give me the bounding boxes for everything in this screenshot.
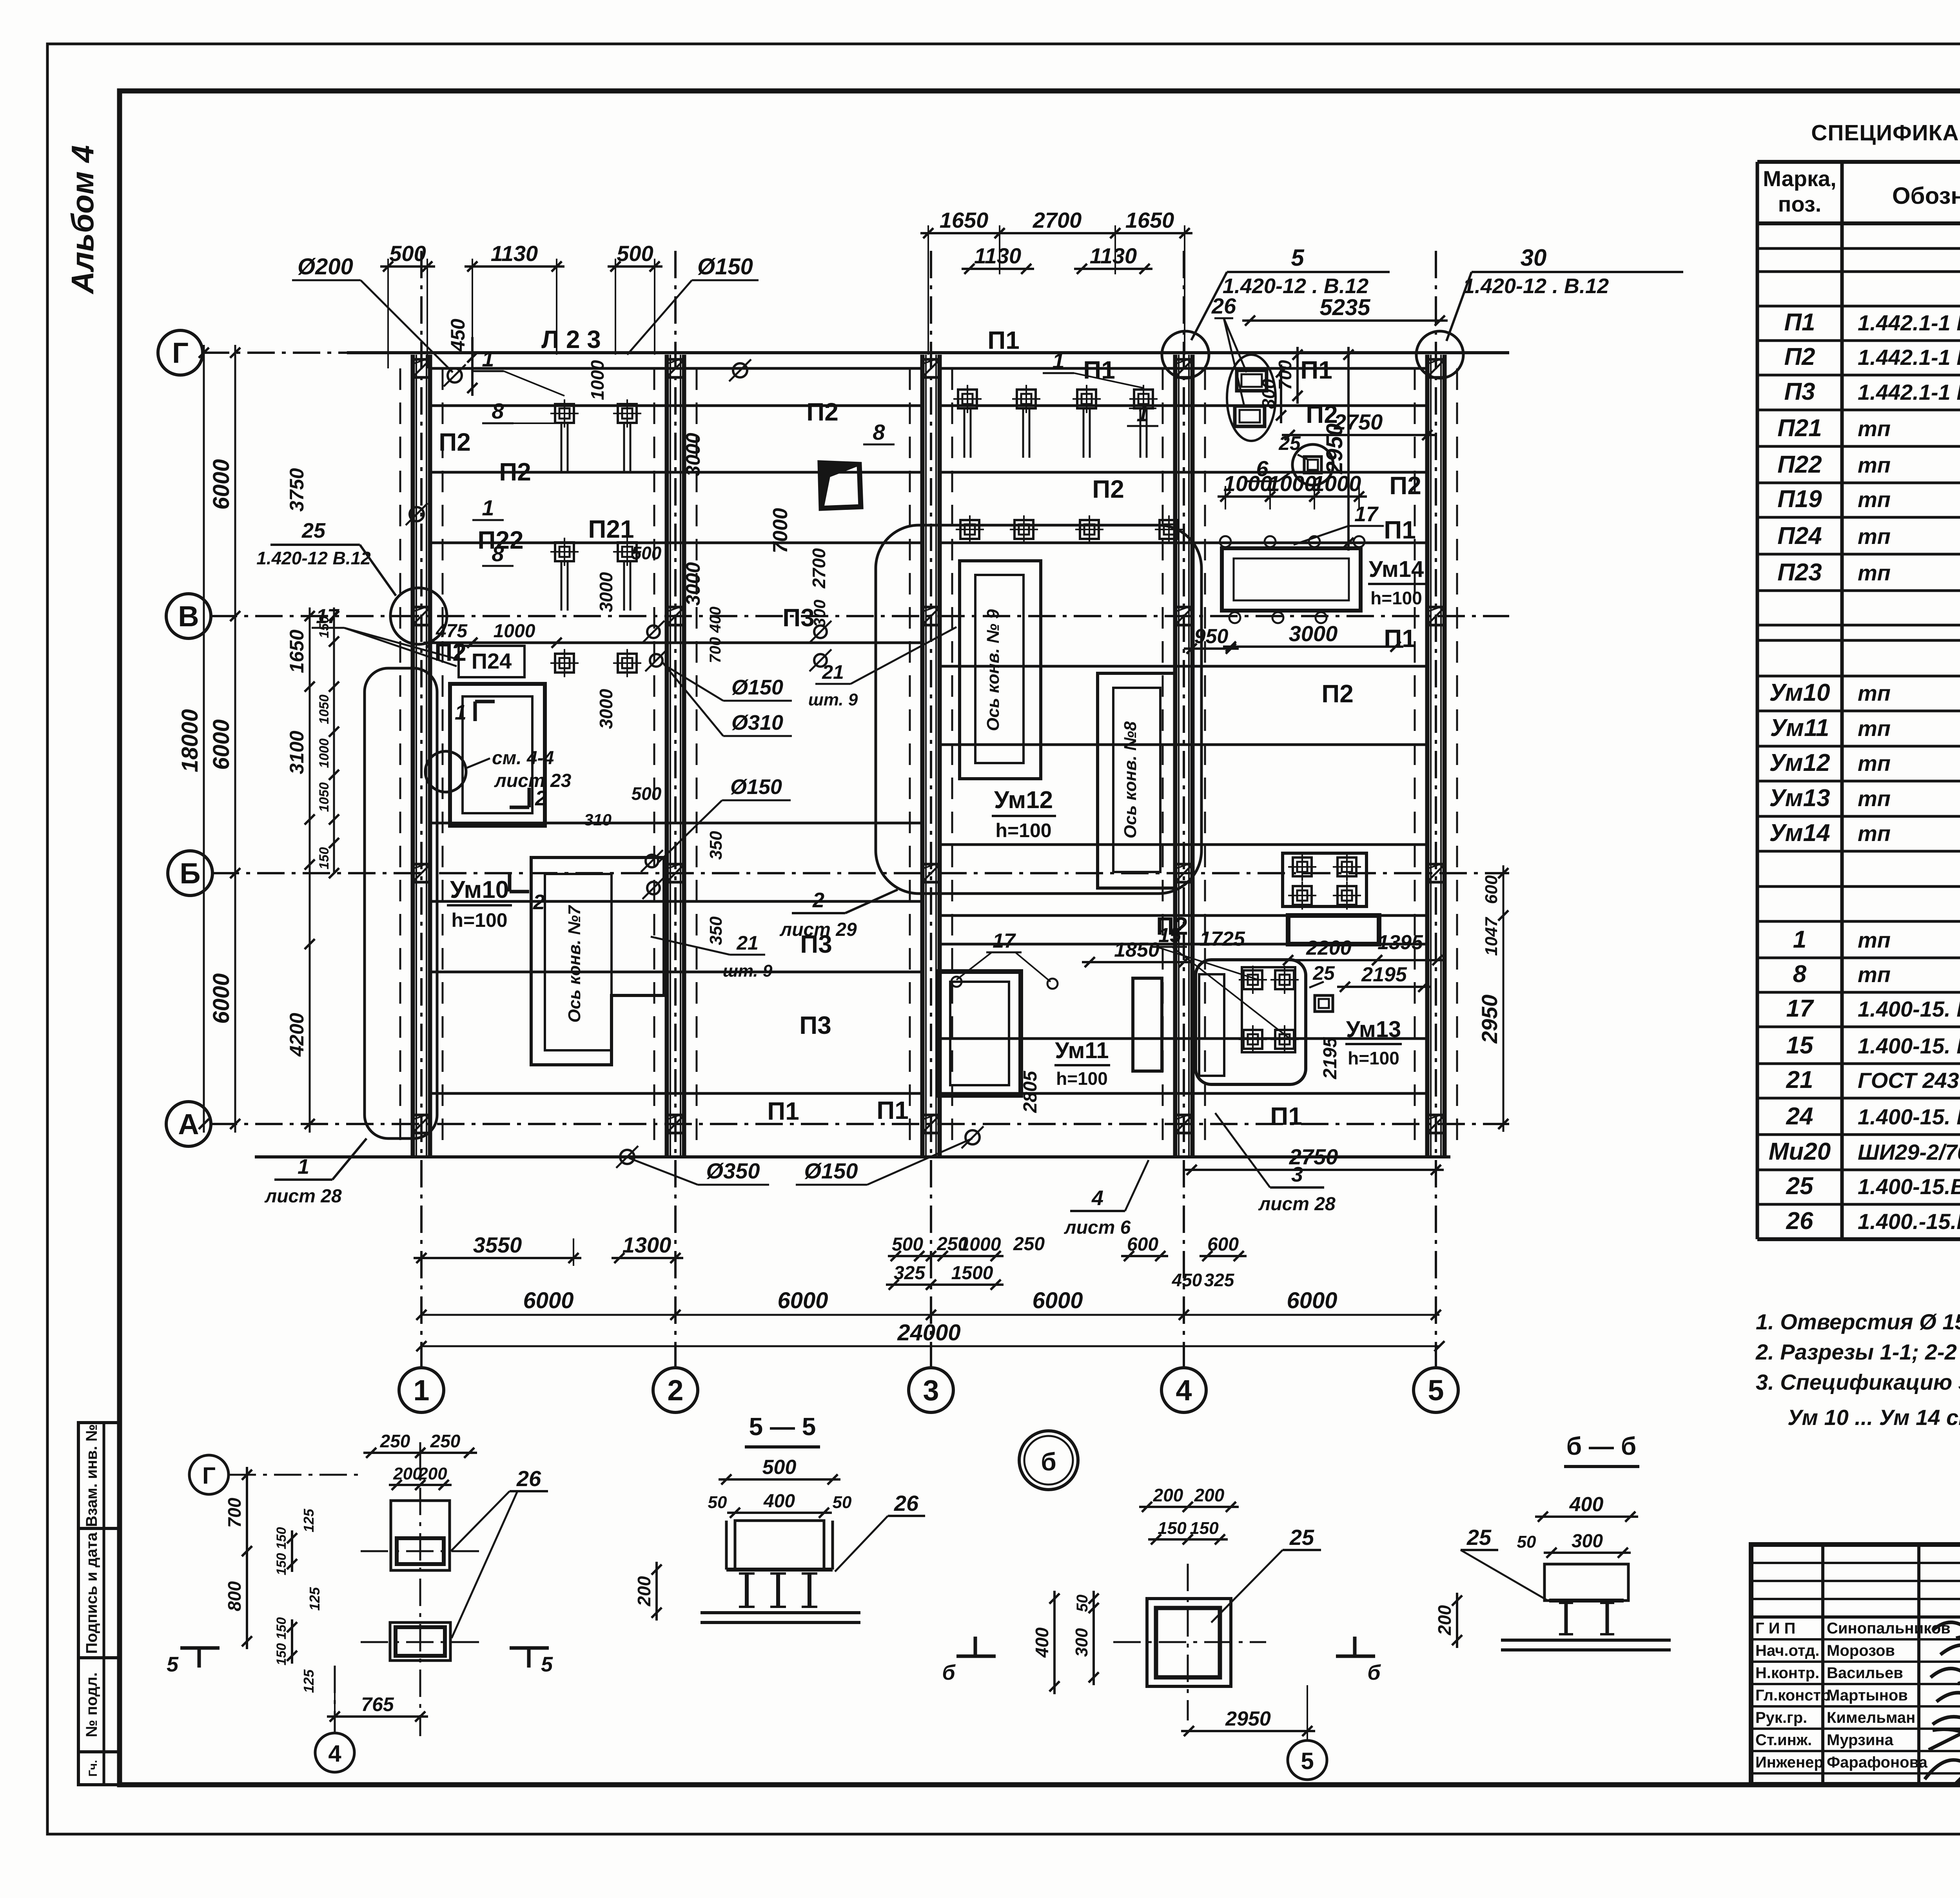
svg-text:17: 17 <box>1354 502 1379 526</box>
opening Ось конв 8 <box>1098 673 1175 888</box>
svg-text:21: 21 <box>1786 1066 1813 1093</box>
svg-text:700: 700 <box>224 1497 245 1528</box>
svg-text:250: 250 <box>430 1431 461 1451</box>
svg-text:400: 400 <box>1569 1493 1604 1516</box>
axis bubbles 1-5 <box>399 1368 444 1412</box>
svg-text:1: 1 <box>1052 348 1064 373</box>
svg-text:В: В <box>178 600 199 633</box>
bottom dim chain row1 <box>573 1238 574 1266</box>
svg-text:6000: 6000 <box>777 1288 828 1313</box>
section 2 below <box>508 872 512 892</box>
axis bubble А <box>166 1102 211 1146</box>
svg-text:б: б <box>942 1661 956 1684</box>
svg-text:25: 25 <box>301 519 326 542</box>
title block <box>1751 1545 1960 1784</box>
svg-text:5: 5 <box>1428 1374 1444 1407</box>
svg-text:П1: П1 <box>1083 356 1115 384</box>
svg-text:1.442.1-1 Вып.1: 1.442.1-1 Вып.1 <box>1858 380 1960 404</box>
vertical axis lines 1-5 <box>420 251 423 1368</box>
svg-text:тп: тп <box>1858 928 1891 952</box>
svg-text:1: 1 <box>298 1155 309 1178</box>
svg-text:Марка,: Марка, <box>1763 166 1836 191</box>
dims 1000x3 <box>1225 486 1226 509</box>
svg-text:Н.контр.: Н.контр. <box>1755 1664 1819 1682</box>
svg-text:h=100: h=100 <box>1348 1048 1399 1068</box>
detail Г4 circle 4 <box>315 1733 354 1772</box>
section 6-6 dims <box>1535 1515 1638 1518</box>
svg-text:50: 50 <box>1074 1595 1091 1612</box>
svg-text:350: 350 <box>706 916 726 945</box>
svg-text:150 150: 150 150 <box>274 1617 289 1665</box>
axis bubble В <box>166 594 211 638</box>
svg-text:Подпись и дата: Подпись и дата <box>83 1532 100 1654</box>
detail Г4 section marks 5 <box>180 1646 220 1650</box>
axis line Б <box>212 872 1509 874</box>
svg-text:1650: 1650 <box>1125 208 1174 232</box>
svg-text:125: 125 <box>307 1587 323 1611</box>
svg-text:500: 500 <box>632 783 662 804</box>
embed 25 square <box>1315 995 1333 1012</box>
svg-text:1.400-15. В.1. 810-01: 1.400-15. В.1. 810-01 <box>1858 997 1960 1021</box>
svg-text:5: 5 <box>1291 245 1305 271</box>
callout см.4-4 <box>425 751 466 792</box>
svg-text:765: 765 <box>361 1693 394 1715</box>
big circle axis1 В <box>390 588 447 644</box>
detail Г4 dims <box>363 1452 428 1454</box>
opening Ум14 <box>1222 548 1361 611</box>
svg-text:250: 250 <box>1013 1234 1045 1254</box>
svg-text:б — б: б — б <box>1566 1432 1637 1460</box>
svg-text:3. Спецификацию закладных и: 3. Спецификацию закладных изделий к моно… <box>1756 1370 1960 1394</box>
svg-text:21: 21 <box>736 932 759 954</box>
svg-text:1.442.1-1 Вып.3: 1.442.1-1 Вып.3 <box>1858 310 1960 335</box>
svg-text:1500: 1500 <box>951 1263 993 1283</box>
top dims left group <box>387 259 389 368</box>
svg-text:Ø350: Ø350 <box>706 1158 760 1183</box>
section mark 1 top <box>474 702 477 721</box>
svg-text:тп: тп <box>1858 453 1891 477</box>
big circle axis4 Г <box>1162 331 1209 378</box>
svg-text:Ø310: Ø310 <box>731 711 783 734</box>
svg-text:2750: 2750 <box>1334 410 1383 434</box>
svg-text:2700: 2700 <box>1033 208 1082 232</box>
svg-text:тп: тп <box>1858 821 1891 846</box>
section mark 2 bottom <box>510 806 529 809</box>
dims 800 700 2950 2750 <box>1280 364 1282 423</box>
column squares <box>412 359 430 377</box>
section 5-5 base <box>701 1611 860 1614</box>
svg-text:Морозов: Морозов <box>1827 1642 1895 1659</box>
svg-text:1.420-12 . В.12: 1.420-12 . В.12 <box>1463 274 1609 298</box>
svg-text:П2: П2 <box>434 638 466 666</box>
detail Г4 dim 765 <box>327 1715 428 1718</box>
svg-text:1: 1 <box>455 701 466 724</box>
svg-text:3000: 3000 <box>682 562 704 605</box>
svg-text:h=100: h=100 <box>995 819 1051 841</box>
svg-text:П3: П3 <box>799 1011 831 1039</box>
svg-text:950: 950 <box>1194 625 1229 648</box>
bottom dim 24000 <box>421 1345 1439 1347</box>
svg-text:150: 150 <box>1158 1519 1187 1538</box>
svg-text:7000: 7000 <box>769 508 792 553</box>
svg-text:П1: П1 <box>1784 309 1815 336</box>
svg-text:500: 500 <box>762 1456 797 1479</box>
svg-text:П21: П21 <box>1777 415 1822 442</box>
plate edges bay Б-А <box>430 900 922 903</box>
detail 25 square <box>1147 1599 1231 1686</box>
svg-text:2: 2 <box>812 888 824 912</box>
svg-text:П2: П2 <box>1092 475 1124 503</box>
svg-text:3000: 3000 <box>682 433 704 476</box>
svg-text:1000: 1000 <box>587 360 608 400</box>
svg-text:1.400-15.В1 130-59: 1.400-15.В1 130-59 <box>1858 1174 1960 1199</box>
svg-text:Ст.инж.: Ст.инж. <box>1755 1731 1812 1749</box>
Ум14 corner circles <box>1220 536 1231 547</box>
svg-text:Л 2 3: Л 2 3 <box>541 325 601 353</box>
bolt rows <box>555 404 574 423</box>
opening Ось конв 7 <box>531 857 664 1065</box>
svg-text:21: 21 <box>822 661 844 683</box>
svg-text:6000: 6000 <box>1032 1288 1083 1313</box>
svg-text:1395: 1395 <box>1377 931 1423 954</box>
svg-text:П1: П1 <box>1384 516 1416 544</box>
svg-text:50: 50 <box>833 1493 852 1512</box>
svg-text:400: 400 <box>763 1491 795 1512</box>
big circle axis5 Г <box>1416 331 1463 378</box>
opening Ум11 <box>938 972 1021 1095</box>
svg-text:600: 600 <box>1127 1234 1158 1255</box>
dim 475 1000 <box>423 642 480 644</box>
svg-text:4: 4 <box>1091 1186 1103 1210</box>
svg-text:5: 5 <box>541 1653 553 1676</box>
detail Г4 axis circle Г <box>189 1455 229 1494</box>
svg-text:Ø200: Ø200 <box>298 254 353 279</box>
left margin boxes <box>78 1423 120 1528</box>
svg-text:шт. 9: шт. 9 <box>723 961 773 981</box>
svg-text:1000: 1000 <box>1268 471 1317 496</box>
embed 25 circle near axis 4 <box>1292 444 1333 485</box>
svg-text:800: 800 <box>224 1581 245 1611</box>
svg-text:5: 5 <box>167 1653 179 1676</box>
svg-text:2. Разрезы 1-1; 2-2 ; 4-4: 2. Разрезы 1-1; 2-2 ; 4-4 см. на листах … <box>1755 1340 1960 1364</box>
svg-text:Ø150: Ø150 <box>730 775 782 799</box>
svg-text:150 150: 150 150 <box>274 1527 289 1575</box>
svg-text:5: 5 <box>1301 1748 1314 1774</box>
svg-text:А: А <box>178 1108 199 1140</box>
svg-text:Ось конв. №8: Ось конв. №8 <box>1121 721 1140 838</box>
svg-text:325: 325 <box>1204 1270 1235 1290</box>
section 6-6 base <box>1501 1639 1671 1642</box>
svg-text:30: 30 <box>1521 245 1547 271</box>
svg-text:лист 23: лист 23 <box>494 770 572 791</box>
svg-text:h=100: h=100 <box>1370 588 1422 608</box>
dark quadrilateral opening <box>820 463 861 508</box>
plan outline top <box>347 351 1509 354</box>
svg-text:1.442.1-1 Вып.1: 1.442.1-1 Вып.1 <box>1858 345 1960 370</box>
left chain segments <box>309 607 311 1133</box>
svg-text:4200: 4200 <box>286 1013 308 1057</box>
svg-text:тп: тп <box>1858 560 1891 585</box>
svg-text:2195: 2195 <box>1320 1037 1341 1079</box>
svg-text:2200: 2200 <box>1306 937 1352 959</box>
walls on axes 1-5 <box>411 355 415 1156</box>
svg-text:700: 700 <box>1275 360 1295 390</box>
section 6-6 body <box>1544 1564 1628 1601</box>
svg-text:1: 1 <box>482 346 494 371</box>
svg-text:2: 2 <box>533 890 545 914</box>
svg-text:17: 17 <box>316 605 339 628</box>
svg-text:лист 6: лист 6 <box>1064 1217 1131 1238</box>
svg-text:П2: П2 <box>1321 680 1354 708</box>
svg-text:2700: 2700 <box>809 548 829 589</box>
svg-text:1: 1 <box>413 1374 429 1407</box>
svg-text:Ум12: Ум12 <box>1769 749 1830 776</box>
axis bubble Г <box>158 330 203 375</box>
svg-text:3750: 3750 <box>286 468 308 511</box>
svg-text:600: 600 <box>1207 1234 1239 1255</box>
svg-text:Б: Б <box>180 857 200 890</box>
detail 25 circle 5 <box>1288 1740 1327 1780</box>
svg-text:500: 500 <box>617 241 653 266</box>
plan outline bottom <box>255 1155 1450 1158</box>
detail Г4 box1 <box>391 1501 450 1570</box>
svg-text:тп: тп <box>1858 786 1891 811</box>
svg-text:6000: 6000 <box>209 459 234 509</box>
axis bubble Б <box>168 851 212 896</box>
svg-text:8: 8 <box>492 541 504 566</box>
section 5-5 body <box>735 1521 824 1570</box>
top dims 1650 2700 1650 <box>927 225 929 355</box>
svg-text:450: 450 <box>1172 1270 1202 1290</box>
svg-text:25: 25 <box>1786 1173 1814 1200</box>
svg-text:П3: П3 <box>800 930 832 958</box>
svg-text:1000: 1000 <box>1223 471 1272 496</box>
signatures <box>1933 1622 1960 1640</box>
svg-text:поз.: поз. <box>1778 192 1822 216</box>
svg-text:1047: 1047 <box>1482 917 1501 956</box>
svg-text:350: 350 <box>706 831 726 860</box>
svg-text:2805: 2805 <box>1020 1070 1041 1113</box>
circle b <box>1019 1431 1078 1490</box>
right dims 600 1047 2950 <box>1503 865 1504 1132</box>
svg-text:1300: 1300 <box>622 1233 671 1257</box>
svg-text:17: 17 <box>1786 995 1814 1022</box>
svg-text:3100: 3100 <box>286 731 308 774</box>
left dim chain 18000 <box>203 345 205 1133</box>
svg-text:2: 2 <box>535 787 547 810</box>
axis line Г <box>202 352 1509 354</box>
svg-text:2950: 2950 <box>1225 1708 1271 1730</box>
svg-text:8: 8 <box>1793 961 1807 988</box>
svg-text:Васильев: Васильев <box>1827 1664 1903 1682</box>
svg-text:Синопальников: Синопальников <box>1827 1620 1951 1637</box>
svg-text:5 — 5: 5 — 5 <box>749 1412 816 1441</box>
left dim chain 6000s <box>234 345 236 1133</box>
axis line А <box>210 1123 1509 1125</box>
leaders from 1 8 to bolts <box>504 371 564 396</box>
svg-text:500: 500 <box>389 241 426 266</box>
svg-text:тп: тп <box>1858 416 1891 441</box>
svg-text:18000: 18000 <box>177 709 203 772</box>
П24 box <box>459 646 524 677</box>
svg-text:4: 4 <box>328 1740 341 1767</box>
svg-text:П21: П21 <box>588 515 634 543</box>
svg-text:1130: 1130 <box>974 243 1021 268</box>
svg-text:26: 26 <box>894 1491 919 1515</box>
svg-text:тп: тп <box>1858 751 1891 776</box>
svg-text:25: 25 <box>1289 1525 1314 1550</box>
monolith zone rounded outline <box>876 525 1201 894</box>
svg-text:3000: 3000 <box>1289 621 1338 646</box>
svg-text:шт. 9: шт. 9 <box>808 690 858 709</box>
svg-text:1: 1 <box>1136 401 1149 426</box>
svg-text:25: 25 <box>1466 1525 1492 1550</box>
small hole circles <box>448 368 462 383</box>
svg-text:1000: 1000 <box>959 1234 1001 1255</box>
svg-text:Ум10: Ум10 <box>450 876 509 903</box>
svg-text:Взам. инв. №: Взам. инв. № <box>83 1424 100 1527</box>
svg-text:1.400-15. В.1 170-05: 1.400-15. В.1 170-05 <box>1858 1104 1960 1129</box>
svg-text:Г И П: Г И П <box>1755 1620 1795 1637</box>
svg-text:Ми20: Ми20 <box>1769 1138 1831 1165</box>
svg-text:1.420-12 . В.12: 1.420-12 . В.12 <box>1223 274 1368 298</box>
svg-text:П1: П1 <box>877 1096 909 1124</box>
top dims 1130 bay34 <box>962 268 1034 270</box>
opening Ось конв 9 <box>960 561 1041 779</box>
dim 5235 <box>1242 319 1448 322</box>
plate edges bay В-Б <box>430 642 922 644</box>
svg-text:200: 200 <box>393 1464 422 1483</box>
svg-text:1.400-15. В.1 130-05: 1.400-15. В.1 130-05 <box>1858 1033 1960 1058</box>
svg-text:лист 28: лист 28 <box>1258 1194 1336 1215</box>
svg-text:П22: П22 <box>1777 451 1822 478</box>
svg-text:24: 24 <box>1786 1103 1813 1130</box>
svg-text:Ум12: Ум12 <box>994 787 1053 814</box>
svg-text:Ум14: Ум14 <box>1769 819 1830 847</box>
svg-text:тп: тп <box>1858 962 1891 987</box>
svg-text:200: 200 <box>1434 1605 1455 1635</box>
plate edges bay Г-В <box>430 367 922 370</box>
svg-text:б: б <box>1367 1661 1381 1684</box>
svg-text:№ подл.: № подл. <box>83 1672 100 1737</box>
svg-text:лист 28: лист 28 <box>264 1186 342 1207</box>
svg-text:Альбом 4: Альбом 4 <box>65 145 100 294</box>
svg-text:150: 150 <box>317 847 332 870</box>
svg-text:125: 125 <box>301 1508 317 1532</box>
svg-text:Гч.: Гч. <box>87 1760 100 1777</box>
svg-text:П1: П1 <box>1384 624 1416 653</box>
dark slot opening <box>1288 915 1379 944</box>
svg-text:ШИ29-2/70 л.30: ШИ29-2/70 л.30 <box>1858 1140 1960 1164</box>
svg-text:8: 8 <box>492 399 504 423</box>
svg-text:см. 4-4: см. 4-4 <box>492 748 554 769</box>
svg-text:Нач.отд.: Нач.отд. <box>1755 1642 1819 1659</box>
svg-text:300: 300 <box>1072 1628 1091 1657</box>
opening 4-4 square <box>450 684 545 826</box>
section 5-5 dims <box>719 1478 840 1481</box>
svg-text:h=100: h=100 <box>1056 1068 1108 1089</box>
svg-text:1130: 1130 <box>491 241 538 266</box>
embedded plates near axis 4 top <box>1237 370 1267 391</box>
svg-text:П3: П3 <box>782 604 815 632</box>
svg-text:1850: 1850 <box>1114 939 1160 961</box>
svg-text:Г: Г <box>202 1463 216 1489</box>
svg-text:Рук.гр.: Рук.гр. <box>1755 1709 1807 1726</box>
dims 950 3000 <box>1184 647 1239 650</box>
svg-text:Мартынов: Мартынов <box>1827 1687 1908 1704</box>
svg-text:2950: 2950 <box>1477 995 1502 1044</box>
Ум11 slot <box>1133 978 1162 1071</box>
svg-text:Ось конв. №7: Ось конв. №7 <box>565 905 584 1022</box>
svg-text:3000: 3000 <box>596 572 616 612</box>
svg-text:П19: П19 <box>1777 486 1822 513</box>
svg-text:700 400: 700 400 <box>707 607 724 663</box>
svg-text:15: 15 <box>1158 924 1181 947</box>
svg-text:200: 200 <box>1194 1485 1225 1505</box>
svg-text:Г: Г <box>172 337 189 369</box>
svg-text:400: 400 <box>1032 1627 1052 1658</box>
svg-text:1130: 1130 <box>1090 243 1137 268</box>
svg-text:П1: П1 <box>1270 1102 1302 1130</box>
svg-text:П2: П2 <box>499 458 531 486</box>
svg-text:Обозначение: Обозначение <box>1892 183 1960 209</box>
svg-text:1.400.-15.В.1 150-59: 1.400.-15.В.1 150-59 <box>1858 1209 1960 1234</box>
svg-text:1000: 1000 <box>1312 471 1361 496</box>
svg-text:1050: 1050 <box>317 694 332 724</box>
svg-text:П23: П23 <box>1777 559 1822 586</box>
svg-text:125: 125 <box>301 1669 317 1693</box>
svg-text:Ø150: Ø150 <box>804 1158 858 1183</box>
svg-text:26: 26 <box>516 1466 541 1491</box>
svg-text:6000: 6000 <box>523 1288 573 1313</box>
svg-text:3550: 3550 <box>473 1233 522 1257</box>
svg-text:П1: П1 <box>987 326 1020 354</box>
axis line В <box>210 615 1509 617</box>
svg-text:6000: 6000 <box>1287 1288 1337 1313</box>
svg-text:26: 26 <box>1786 1207 1813 1235</box>
svg-text:П24: П24 <box>1777 522 1822 549</box>
svg-text:ГОСТ 24379.1-80: ГОСТ 24379.1-80 <box>1858 1068 1960 1093</box>
svg-text:П2: П2 <box>1306 400 1338 428</box>
svg-text:500: 500 <box>892 1234 923 1255</box>
svg-text:Ум11: Ум11 <box>1770 714 1829 741</box>
svg-text:Инженер: Инженер <box>1755 1754 1824 1771</box>
svg-text:6000: 6000 <box>209 719 234 770</box>
svg-text:6000: 6000 <box>209 973 234 1024</box>
svg-text:Ось конв. № 9: Ось конв. № 9 <box>984 609 1003 731</box>
svg-text:8: 8 <box>873 420 885 444</box>
svg-text:4: 4 <box>1176 1374 1192 1407</box>
plate П19 <box>1283 853 1367 906</box>
bottom dim chain 6000s <box>421 1314 1439 1316</box>
zone Ум13 <box>1196 960 1306 1084</box>
svg-text:Гл.констр.: Гл.констр. <box>1755 1687 1835 1704</box>
svg-text:1000: 1000 <box>317 738 332 768</box>
svg-text:150: 150 <box>1190 1519 1219 1538</box>
svg-text:Ум10: Ум10 <box>1769 679 1830 706</box>
svg-text:5235: 5235 <box>1319 295 1370 320</box>
svg-text:П1: П1 <box>767 1097 799 1125</box>
svg-text:СПЕЦИФИКАЦИЯ ЭЛЕМЕНТОВ К СХЕМЕ: СПЕЦИФИКАЦИЯ ЭЛЕМЕНТОВ К СХЕМЕ РАСПОЛОЖЕ… <box>1811 120 1960 145</box>
detail 25 dim 2950 <box>1181 1730 1315 1732</box>
svg-text:1. Отверстия Ø 150 мм. п: 1. Отверстия Ø 150 мм. пробить по месту. <box>1756 1309 1960 1334</box>
svg-text:1650: 1650 <box>940 208 989 232</box>
svg-text:П24: П24 <box>472 649 512 673</box>
detail 25 dims <box>1139 1506 1196 1508</box>
svg-text:2195: 2195 <box>1361 963 1407 986</box>
svg-text:25: 25 <box>1312 962 1335 984</box>
left micro chain <box>333 607 335 874</box>
